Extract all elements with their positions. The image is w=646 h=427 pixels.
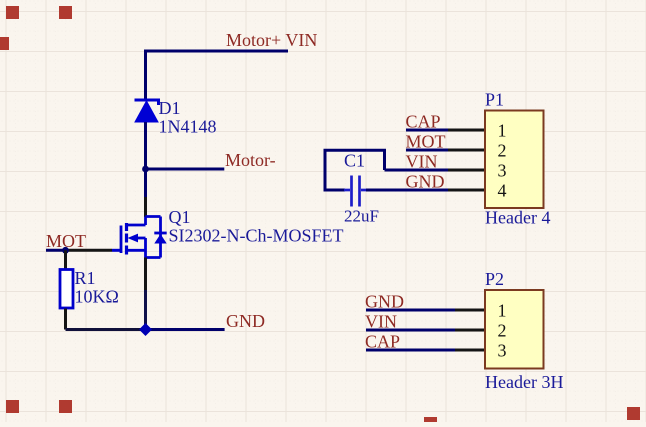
svg-text:2: 2 — [498, 141, 507, 161]
body diode cathode bar — [154, 232, 166, 235]
diode D1 (cathode bar with right tick, anode triangle pointing up) — [135, 100, 159, 122]
wire VIN net to P2 pin 2 — [366, 329, 455, 332]
body diode line — [159, 217, 162, 258]
body diode triangle (points up) — [154, 234, 166, 244]
pin R1 bottom lead — [64, 309, 67, 330]
pin P2.2 lead — [455, 329, 485, 332]
pin Q1 gate lead inner (blue) — [112, 249, 121, 252]
bulk contact with arrow — [137, 237, 146, 240]
pin P1.4 lead — [448, 189, 485, 192]
svg-text:2: 2 — [498, 321, 507, 341]
svg-text:10KΩ: 10KΩ — [75, 287, 119, 307]
svg-text:3: 3 — [498, 161, 507, 181]
wire MOT net to P1 pin 2 — [406, 149, 448, 152]
svg-text:GND: GND — [406, 172, 445, 192]
pin Q1 gate lead — [67, 249, 112, 252]
svg-text:Header 4: Header 4 — [485, 208, 550, 228]
wire GND net rail (left, darker) — [66, 328, 142, 331]
wire MOT net to gate — [46, 249, 68, 252]
bulk arrow head (points left) — [128, 234, 139, 243]
wire Motor- net — [146, 168, 225, 171]
svg-text:R1: R1 — [75, 268, 96, 288]
svg-text:MOT: MOT — [46, 231, 86, 251]
marker square bottom-center — [424, 417, 437, 422]
junction at MOT / R1 tap — [62, 247, 69, 254]
resistor R1 body — [60, 270, 73, 309]
wire Motor+ VIN net (top horizontal + corner down to D1 cathode) — [146, 51, 289, 100]
connector P1 body — [485, 111, 544, 209]
svg-text:CAP: CAP — [365, 332, 400, 352]
svg-text:1: 1 — [498, 301, 507, 321]
source internal connection — [127, 238, 161, 258]
junction diamond at GND rail — [139, 323, 152, 336]
pin P1.3 lead — [448, 169, 485, 172]
svg-text:P1: P1 — [485, 90, 504, 110]
pin P2.1 lead — [455, 309, 485, 312]
svg-text:4: 4 — [498, 181, 507, 201]
wire C1/VIN loop — [325, 150, 385, 190]
svg-text:VIN: VIN — [365, 312, 397, 332]
svg-text:3: 3 — [498, 341, 507, 361]
pin P1.2 lead — [448, 149, 485, 152]
junction at Motor- tap — [142, 166, 149, 173]
pin Q1 drain lead — [144, 197, 147, 217]
svg-text:1N4148: 1N4148 — [159, 117, 217, 137]
wire VIN net to P1 pin 3 — [385, 169, 449, 172]
marker square left edge — [0, 37, 9, 50]
drain internal connection — [127, 217, 161, 226]
wire GND net through C1 to P1 pin 4 — [366, 189, 448, 192]
svg-text:1: 1 — [498, 121, 507, 141]
svg-text:Motor-: Motor- — [225, 150, 276, 170]
marker square bottom-left B — [59, 400, 72, 413]
pin R1 top lead — [64, 250, 67, 268]
svg-text:SI2302-N-Ch-MOSFET: SI2302-N-Ch-MOSFET — [169, 226, 344, 246]
marker square bottom-right — [627, 407, 640, 420]
svg-text:Motor+ VIN: Motor+ VIN — [226, 30, 317, 50]
svg-text:D1: D1 — [159, 98, 181, 118]
svg-text:GND: GND — [365, 292, 404, 312]
svg-text:MOT: MOT — [406, 132, 446, 152]
marker square bottom-left A — [6, 400, 19, 413]
pin P2.3 lead — [455, 349, 485, 352]
pin Q1 source lead — [144, 258, 147, 291]
wire from D1 anode down to Motor- junction and Q1 drain — [144, 122, 147, 197]
transistor Q1 SI2302 N-channel MOSFET symbol — [121, 217, 167, 258]
channel contact bars — [125, 223, 128, 255]
svg-text:Header 3H: Header 3H — [485, 372, 563, 392]
svg-text:VIN: VIN — [406, 152, 438, 172]
wire GND net rail (right) — [141, 328, 225, 331]
pin P1.1 lead — [448, 129, 485, 132]
marker square top-left B — [59, 6, 72, 19]
svg-text:P2: P2 — [485, 269, 504, 289]
wire source down to GND rail — [144, 290, 147, 331]
svg-text:22uF: 22uF — [344, 207, 379, 226]
capacitor C1 plates and pin stubs — [344, 176, 367, 207]
connector P2 body — [485, 290, 544, 369]
svg-text:Q1: Q1 — [169, 207, 191, 227]
wire CAP net to P1 pin 1 — [406, 129, 448, 132]
gate bar — [120, 226, 123, 254]
svg-text:CAP: CAP — [406, 112, 441, 132]
wire CAP net to P2 pin 3 — [366, 349, 455, 352]
svg-text:C1: C1 — [344, 151, 365, 171]
svg-text:GND: GND — [226, 311, 265, 331]
wire GND net to P2 pin 1 — [366, 309, 455, 312]
marker square top-left A — [6, 6, 19, 19]
